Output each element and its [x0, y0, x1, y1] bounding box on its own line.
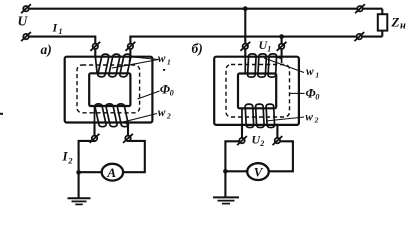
wire: lower line rise to load [381, 31, 383, 37]
terminal: transformer b primary left [240, 42, 250, 51]
node: junction at I2 branch [76, 170, 81, 175]
wire: transformer b secondary left lead down to voltmeter branch [225, 125, 242, 197]
svg-text:I: I [52, 21, 59, 35]
svg-text:б): б) [192, 41, 203, 56]
speck: dot below w1 label [163, 69, 165, 71]
svg-text:н: н [400, 21, 406, 32]
transformer b primary winding w1 (3 turns on top limb) [245, 54, 281, 77]
svg-text:w: w [158, 107, 166, 119]
voltmeter V [247, 163, 269, 180]
svg-text:1: 1 [315, 70, 319, 79]
label Phi0 of transformer a with leader [138, 81, 174, 99]
ammeter A [102, 164, 123, 181]
svg-text:0: 0 [170, 89, 174, 98]
label w2 of transformer b with leader [266, 111, 319, 124]
node: junction on lower line [279, 34, 284, 39]
terminal: top line at load [355, 4, 365, 13]
svg-text:1: 1 [167, 57, 171, 66]
terminal: lower-left line clamp [21, 32, 31, 41]
transformer a secondary winding w2 (3 slanted turns on bottom limb) [95, 104, 129, 127]
terminal: transformer a primary right lead [126, 42, 136, 51]
terminal: transformer b secondary right [273, 136, 283, 145]
transformer b outer core edge [214, 57, 299, 125]
wire: lower supply line, left section to transformer a primary [29, 37, 96, 58]
label b) section marker [192, 41, 203, 56]
svg-text:1: 1 [59, 27, 63, 36]
wire: top supply line [29, 8, 383, 10]
wire: transformer a secondary right lead down to ammeter [123, 123, 145, 173]
label I2 [62, 149, 74, 166]
ground: transformer a secondary [68, 198, 91, 204]
wire: junction to ammeter [79, 171, 102, 173]
transformer b flux path Phi0 (dashed) [226, 65, 290, 118]
svg-text:2: 2 [259, 139, 264, 148]
label w1 of transformer a with leader [112, 53, 171, 68]
wire: junction to voltmeter [225, 170, 247, 172]
label a) [41, 42, 52, 57]
svg-text:2: 2 [166, 112, 171, 121]
speck: small mark left edge [0, 113, 3, 115]
terminal: transformer b primary right [277, 42, 287, 51]
label Zн [391, 15, 407, 32]
transformer a primary winding w1 (3 slanted turns on top limb) [95, 54, 131, 77]
label w1 of transformer b with leader [264, 58, 319, 79]
svg-text:w: w [306, 66, 314, 78]
svg-text:w: w [158, 53, 166, 65]
svg-text:2: 2 [314, 116, 319, 125]
transformer a inner core window edge [89, 73, 130, 106]
transformer a flux path Phi0 (dashed) [77, 65, 140, 113]
svg-text:0: 0 [315, 93, 319, 102]
terminal: transformer a secondary left [90, 134, 100, 143]
ground: transformer b secondary [213, 197, 239, 203]
wire: top line drop to load [381, 9, 383, 15]
svg-text:V: V [254, 164, 264, 179]
svg-text:U: U [18, 14, 29, 29]
transformer b inner core window edge [238, 74, 276, 109]
terminal: lower line at load [354, 32, 364, 41]
label w2 of transformer a with leader [120, 107, 171, 123]
svg-text:2: 2 [67, 156, 73, 166]
svg-text:1: 1 [267, 45, 271, 54]
wire: transformer b primary right lead from lower line [281, 37, 283, 58]
terminal: transformer b secondary left [237, 136, 247, 145]
wire: lower supply line, right section from transformer a primary to load [130, 37, 382, 58]
svg-text:a): a) [41, 42, 52, 57]
terminal: transformer a primary left lead [90, 42, 100, 51]
svg-text:A: A [106, 165, 116, 180]
transformer a outer core edge [65, 57, 153, 123]
label U2 [252, 132, 265, 147]
wire: transformer a secondary left lead down to ammeter branch [79, 123, 95, 198]
node: junction on top line [243, 6, 248, 11]
wire: transformer b primary left lead from top line [244, 9, 246, 58]
svg-text:w: w [305, 111, 313, 123]
svg-text:Z: Z [391, 15, 400, 30]
terminal: top-left line clamp [21, 4, 31, 13]
label U [18, 14, 29, 29]
label U1 [259, 38, 272, 53]
load impedance Zн [378, 14, 388, 30]
label I1 [52, 21, 63, 37]
terminal: transformer a secondary right [123, 134, 133, 143]
label Phi0 of transformer b with leader [290, 85, 319, 101]
wire: transformer b secondary right lead down to voltmeter [268, 125, 293, 171]
node: junction at voltmeter branch [223, 169, 228, 174]
transformer b secondary winding w2 (3 turns on bottom limb) [242, 104, 277, 127]
